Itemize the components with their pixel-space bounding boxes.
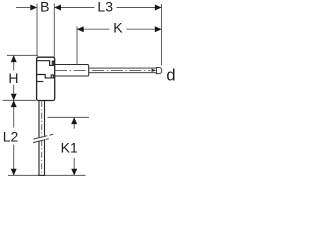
svg-text:K1: K1 — [61, 139, 78, 155]
body inner bottom tab — [51, 75, 53, 78]
arrow K1 top pointing up — [71, 117, 77, 124]
vertical pipe left wall — [38, 101, 40, 176]
vertical pipe bottom end — [39, 174, 46, 176]
vertical pipe right wall — [44, 101, 46, 176]
arrow K right pointing right — [155, 26, 162, 32]
body inner bottom step — [37, 75, 55, 78]
pipe break upper line — [34, 134, 54, 139]
flow arrow on centerline — [152, 69, 157, 72]
wire L3 dimension line — [54, 7, 161, 9]
arrow L3 left pointing left — [54, 5, 61, 11]
body inner top tab — [52, 61, 53, 65]
arrow K left pointing left — [77, 26, 84, 32]
vertical centerline dash-dot — [41, 101, 43, 175]
wire K1 top extension line — [48, 116, 90, 118]
svg-text:K: K — [113, 19, 123, 35]
body inner bottom lower line — [37, 81, 44, 83]
svg-text:H: H — [8, 70, 18, 86]
svg-text:d: d — [166, 66, 175, 84]
arrow H top pointing up — [11, 55, 17, 62]
wire K dimension line — [77, 28, 162, 30]
wire B right / L3 left extension line — [53, 4, 55, 57]
horizontal thick tube — [55, 65, 89, 77]
wire H top extension line — [7, 54, 38, 56]
arrow L2 top pointing up — [11, 100, 17, 107]
arrow H bottom pointing down — [11, 94, 17, 101]
wire H bottom / L2 top shared extension line — [3, 99, 37, 101]
wire B left extension line — [36, 4, 38, 57]
wire B dimension tail left — [16, 7, 30, 9]
pipe break lower line — [33, 139, 49, 143]
wire K left extension line — [76, 26, 78, 64]
wire L3/K right extension line — [161, 4, 163, 65]
arrow B left pointing right — [30, 5, 37, 11]
wire L2 dimension line — [13, 100, 15, 175]
svg-text:B: B — [40, 0, 49, 14]
horizontal thin pipe top and bottom edges — [89, 68, 157, 73]
pipe end cap — [156, 67, 161, 73]
valve body outline — [37, 57, 55, 100]
body inner top step — [37, 61, 55, 66]
svg-text:L3: L3 — [97, 0, 113, 14]
wire H dimension line — [13, 55, 15, 100]
arrow K1 bottom pointing down — [71, 169, 77, 176]
arrow L2 bottom pointing down — [11, 169, 17, 176]
wire K1 dimension line — [73, 117, 75, 175]
arrow L3 right pointing right — [155, 5, 162, 11]
svg-text:L2: L2 — [3, 128, 19, 144]
horizontal centerline dash-dot — [55, 69, 150, 71]
wire bottom extension line — [8, 174, 86, 176]
